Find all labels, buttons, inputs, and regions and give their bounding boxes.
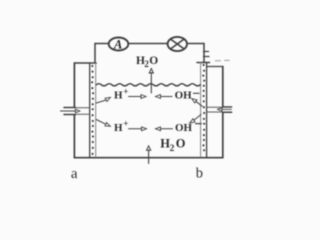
wire between ammeter and lamp [128,43,167,45]
electrode b left edge [200,63,202,158]
row1 minus sign [194,92,200,94]
bottom inflow arrow through container bottom [148,150,150,164]
row2 H+ label [114,119,128,134]
lamp [168,37,187,51]
svg-text:O: O [149,55,158,67]
right inlet tube bottom [207,111,223,113]
row1 left arrow [161,96,173,98]
row2 minus sign [196,123,202,125]
svg-text:H: H [114,90,123,102]
container left wall (gap at inlet) [73,63,75,158]
container bottom [74,157,222,159]
right inlet flow arrow [222,108,232,110]
svg-text:a: a [71,166,78,182]
ammeter A [109,38,129,51]
terminal tick 2 [204,56,210,58]
electrode a right edge [95,63,97,157]
H2O label bottom [160,137,186,154]
wire top-left vertical (down to electrode a) [94,44,96,63]
svg-text:OH: OH [175,122,193,134]
row2 left arrow [161,128,173,130]
right inlet tube top [207,106,223,108]
left inlet flow arrow [60,110,75,112]
water surface wavy line [96,84,200,86]
row1 right arrow [129,96,142,98]
wire top-right horizontal [187,43,204,45]
container right wall (gap at inlet) [222,67,224,158]
row2 arrow electrode b to OH- [194,115,201,120]
svg-text:+: + [123,87,128,97]
electrode a left edge [89,63,91,157]
svg-text:b: b [196,166,203,182]
electrode b right edge [206,63,208,158]
svg-text:H: H [114,122,123,134]
row1 H+ label [114,87,128,102]
left inlet tube top [64,107,76,109]
wire top-left horizontal [95,43,109,45]
svg-text:2: 2 [170,144,175,154]
electrode b top plate [197,62,210,64]
H2O label top [136,55,158,69]
svg-text:+: + [123,119,128,129]
left inlet tube bottom [64,114,76,116]
electrode a dots [91,65,94,155]
terminal tick 1 [204,51,209,53]
svg-text:OH: OH [175,90,193,102]
row1 arrow electrode a to H+ [96,100,105,103]
row2 right arrow [129,128,142,130]
evaporation arrow through surface [150,73,152,94]
row1 arrow electrode b to OH- [196,101,203,106]
container top-left rim [74,62,96,64]
container top-right rim [207,66,223,68]
wire top-right vertical [203,44,205,63]
svg-text:O: O [176,137,186,151]
svg-text:A: A [113,37,122,51]
row2 arrow electrode a to H+ [96,120,105,124]
faint dashes top right [215,59,229,61]
electrode b dots [202,64,205,151]
